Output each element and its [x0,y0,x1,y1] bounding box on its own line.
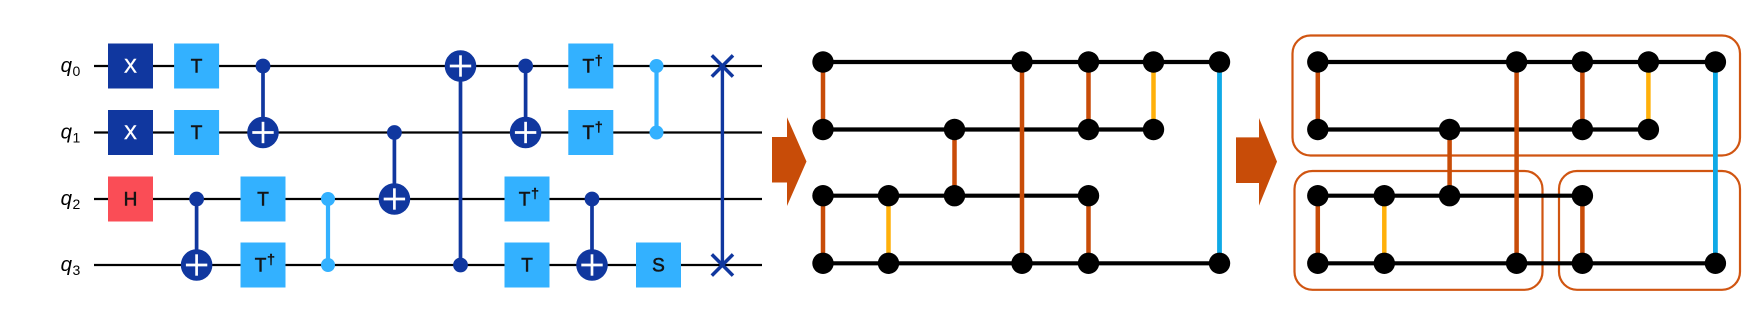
gate S q3 [636,243,681,288]
graph2 node q1 col 4 [1572,119,1593,140]
svg-text:q: q [61,54,73,77]
graph1 node q0 col 5 [1143,51,1164,72]
graph1 node q2 col 0 [812,185,833,206]
gate Tdg q2 [505,177,550,222]
wire q0 [94,65,762,67]
arrow 2 [1236,118,1277,206]
graph1 node q3 col 4 [1078,253,1099,274]
graph2 node q3 col 3 [1506,253,1527,274]
svg-text:T: T [191,123,203,144]
graph1 CX edge q1-q2 col 2 [952,130,957,196]
svg-text:X: X [124,57,137,78]
graph1 CX edge q2-q3 col 4 [1086,196,1091,264]
graph1 node q1 col 4 [1078,119,1099,140]
gate T q2 [241,177,286,222]
gate SWAP q0 q3 [712,55,733,275]
svg-text:T: T [582,123,594,144]
gate Tdg q1 [568,110,613,155]
graph1 CX edge q0-q1 col 4 [1086,62,1091,130]
gate CNOT control q0 target q1 [247,59,279,149]
arrow 1 [772,117,807,206]
graph1 node q3 col 1 [878,253,899,274]
svg-text:†: † [531,185,539,201]
graph1 timeline row q3 [823,261,1220,265]
graph1 timeline row q0 [823,60,1220,64]
graph2 node q2 col 1 [1374,185,1395,206]
svg-text:3: 3 [73,262,81,278]
graph2 node q1 col 0 [1307,119,1328,140]
graph2 node q3 col 6 [1705,253,1726,274]
svg-text:q: q [61,121,73,144]
svg-text:2: 2 [73,196,81,212]
gate CNOT control q3 target q0 [445,50,477,272]
graph1 node q0 col 6 [1209,51,1230,72]
graph2 CP edge q0-q1 col 5 [1646,62,1651,130]
graph2 SWAP edge q0-q3 col 6 [1713,62,1718,263]
graph2 node q0 col 4 [1572,51,1593,72]
graph2 CX edge q1-q2 col 2 [1447,130,1452,196]
graph1 node q2 col 4 [1078,185,1099,206]
graph2 node q2 col 4 [1572,185,1593,206]
svg-text:q: q [61,187,73,210]
svg-text:0: 0 [73,63,81,79]
partition box fragment A (q0,q1) [1293,36,1741,156]
svg-text:H: H [124,190,138,211]
gate H q2 [108,177,153,222]
graph1 node q1 col 2 [944,119,965,140]
partition box fragment C (q2,q3 right) [1559,171,1740,290]
gate Tdg q3 [241,243,286,288]
wire q3 [94,264,762,266]
graph1 node q3 col 6 [1209,253,1230,274]
graph1 node q3 col 3 [1011,253,1032,274]
graph1 node q2 col 1 [878,185,899,206]
graph1 SWAP edge q0-q3 col 6 [1217,62,1222,263]
svg-text:1: 1 [73,130,81,146]
graph1 node q2 col 2 [944,185,965,206]
graph2 CX edge q0-q1 col 0 [1316,62,1321,130]
svg-text:†: † [595,119,603,135]
graph2 node q3 col 1 [1374,253,1395,274]
svg-text:T: T [257,190,269,211]
graph1 node q1 col 5 [1143,119,1164,140]
graph1 node q0 col 4 [1078,51,1099,72]
graph2 node q1 col 5 [1638,119,1659,140]
partition box fragment B (q2,q3 left) [1295,171,1543,290]
graph1 node q1 col 0 [812,119,833,140]
gate X q0 [108,44,153,89]
graph2 timeline row q2 [1318,194,1583,198]
graph2 node q3 col 0 [1307,253,1328,274]
graph2 CP edge q2-q3 col 1 [1382,196,1387,264]
svg-text:†: † [595,52,603,68]
graph2 node q2 col 0 [1307,185,1328,206]
graph2 node q2 col 2 [1439,185,1460,206]
graph2 node q0 col 5 [1638,51,1659,72]
svg-text:†: † [267,251,275,267]
svg-text:q: q [61,253,73,276]
graph2 CX edge q2-q3 col 4 [1580,196,1585,264]
graph1 CX edge q0-q1 col 0 [821,62,826,130]
graph2 CX edge q2-q3 col 0 [1316,196,1321,264]
gate Tdg q0 [568,44,613,89]
gate CP q2 q3 [321,192,335,272]
gate T q3 [505,243,550,288]
gate CNOT control q0 target q1 [510,59,542,149]
svg-text:T: T [519,190,531,211]
svg-text:X: X [124,123,137,144]
gate CNOT control q1 target q2 [379,125,411,215]
wire q1 [94,131,762,133]
graph2 node q0 col 3 [1506,51,1527,72]
graph2 timeline row q1 [1318,127,1649,131]
graph2 timeline row q0 [1318,60,1716,64]
gate CP q0 q1 [650,59,664,140]
graph1 CX edge q2-q3 col 0 [821,196,826,264]
graph1 CP edge q0-q1 col 5 [1151,62,1156,130]
gate X q1 [108,110,153,155]
svg-text:S: S [652,256,665,277]
graph1 node q0 col 0 [812,51,833,72]
gate CNOT control q2 target q3 [181,192,213,281]
wire q2 [94,198,762,200]
gate CNOT control q2 target q3 [576,192,608,281]
graph2 node q1 col 2 [1439,119,1460,140]
graph2 node q0 col 0 [1307,51,1328,72]
graph2 node q0 col 6 [1705,51,1726,72]
graph2 CX edge q0-q1 col 4 [1580,62,1585,130]
graph1 timeline row q1 [823,127,1154,131]
svg-text:T: T [582,57,594,78]
gate T q0 [174,44,219,89]
svg-text:T: T [191,57,203,78]
svg-text:T: T [521,256,533,277]
graph1 CP edge q2-q3 col 1 [886,196,891,264]
graph1 node q3 col 0 [812,253,833,274]
graph2 node q3 col 4 [1572,253,1593,274]
graph2 CX edge q0-q3 col 3 [1514,62,1519,263]
graph2 timeline row q3 [1318,261,1716,265]
svg-text:T: T [255,256,267,277]
graph1 timeline row q2 [823,194,1089,198]
graph1 CX edge q0-q3 col 3 [1020,62,1025,263]
gate T q1 [174,110,219,155]
graph1 node q0 col 3 [1011,51,1032,72]
